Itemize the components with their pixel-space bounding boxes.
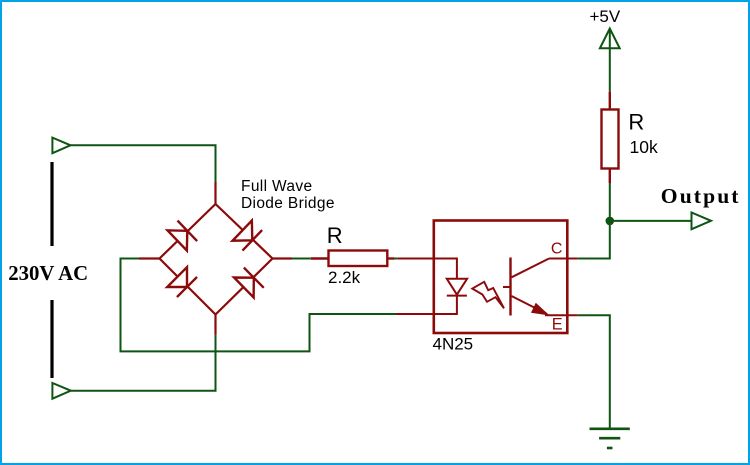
svg-text:C: C	[551, 241, 563, 258]
wire bottom AC input to bridge	[71, 335, 216, 391]
node output junction	[606, 217, 615, 226]
diode D3 bottom-left	[167, 267, 197, 297]
4N25 light arrow	[472, 282, 504, 309]
4N25 collector pin C	[549, 258, 578, 260]
diode bridge	[139, 182, 292, 335]
AC source line	[50, 162, 53, 378]
4N25 pin 2 cathode stub	[396, 313, 434, 315]
ground	[590, 429, 630, 448]
bridge edge top-left	[160, 204, 216, 259]
svg-text:Diode Bridge: Diode Bridge	[241, 195, 335, 212]
svg-text:2.2k: 2.2k	[328, 268, 361, 287]
svg-text:R: R	[327, 223, 343, 248]
connector AC top	[52, 138, 70, 154]
bridge pin stub right	[273, 257, 293, 259]
wire output node down to collector	[578, 221, 610, 259]
optocoupler U1 4N25	[434, 221, 568, 334]
connector Output	[692, 213, 712, 230]
wire emitter to ground	[578, 315, 610, 429]
4N25 phototransistor	[509, 258, 511, 316]
4N25 emitter pin E	[545, 314, 578, 316]
4N25 internal LED	[447, 279, 467, 295]
svg-text:+5V: +5V	[590, 7, 621, 26]
bridge pin stub bottom	[214, 315, 216, 335]
resistor R 10k	[602, 92, 619, 183]
svg-text:10k: 10k	[630, 137, 658, 157]
svg-text:Full Wave: Full Wave	[241, 178, 312, 195]
svg-text:Output: Output	[661, 184, 741, 208]
resistor R 2.2k	[311, 251, 395, 267]
wire 10k resistor to output node	[609, 183, 611, 221]
wire top AC input to bridge	[71, 145, 216, 182]
bridge pin stub top	[214, 182, 216, 204]
diode D2 top-right	[232, 220, 262, 250]
svg-text:4N25: 4N25	[433, 335, 474, 354]
svg-text:E: E	[552, 316, 563, 334]
wire output node to output connector	[610, 220, 692, 222]
connector AC bottom	[52, 383, 70, 399]
power +5V symbol	[600, 29, 620, 92]
4N25 internal wire anode to LED	[434, 259, 457, 279]
svg-text:R: R	[628, 110, 644, 135]
bridge edge bottom-left	[160, 259, 216, 315]
bridge edge bottom-right	[216, 259, 273, 315]
wire bridge right vertex to resistor	[292, 258, 311, 260]
wire resistor to optocoupler anode pin	[394, 258, 397, 260]
bridge edge top-right	[216, 204, 273, 259]
4N25 package box	[434, 221, 568, 334]
4N25 internal wire LED to cathode pin	[434, 296, 457, 314]
4N25 pin 1 anode stub	[398, 258, 434, 260]
diode D4 bottom-right	[234, 268, 264, 298]
wire bridge left vertex to optocoupler LED cathode pin	[121, 259, 397, 352]
bridge pin stub left	[139, 257, 160, 259]
svg-text:230V AC: 230V AC	[8, 262, 88, 285]
diode D1 top-left	[167, 221, 197, 251]
